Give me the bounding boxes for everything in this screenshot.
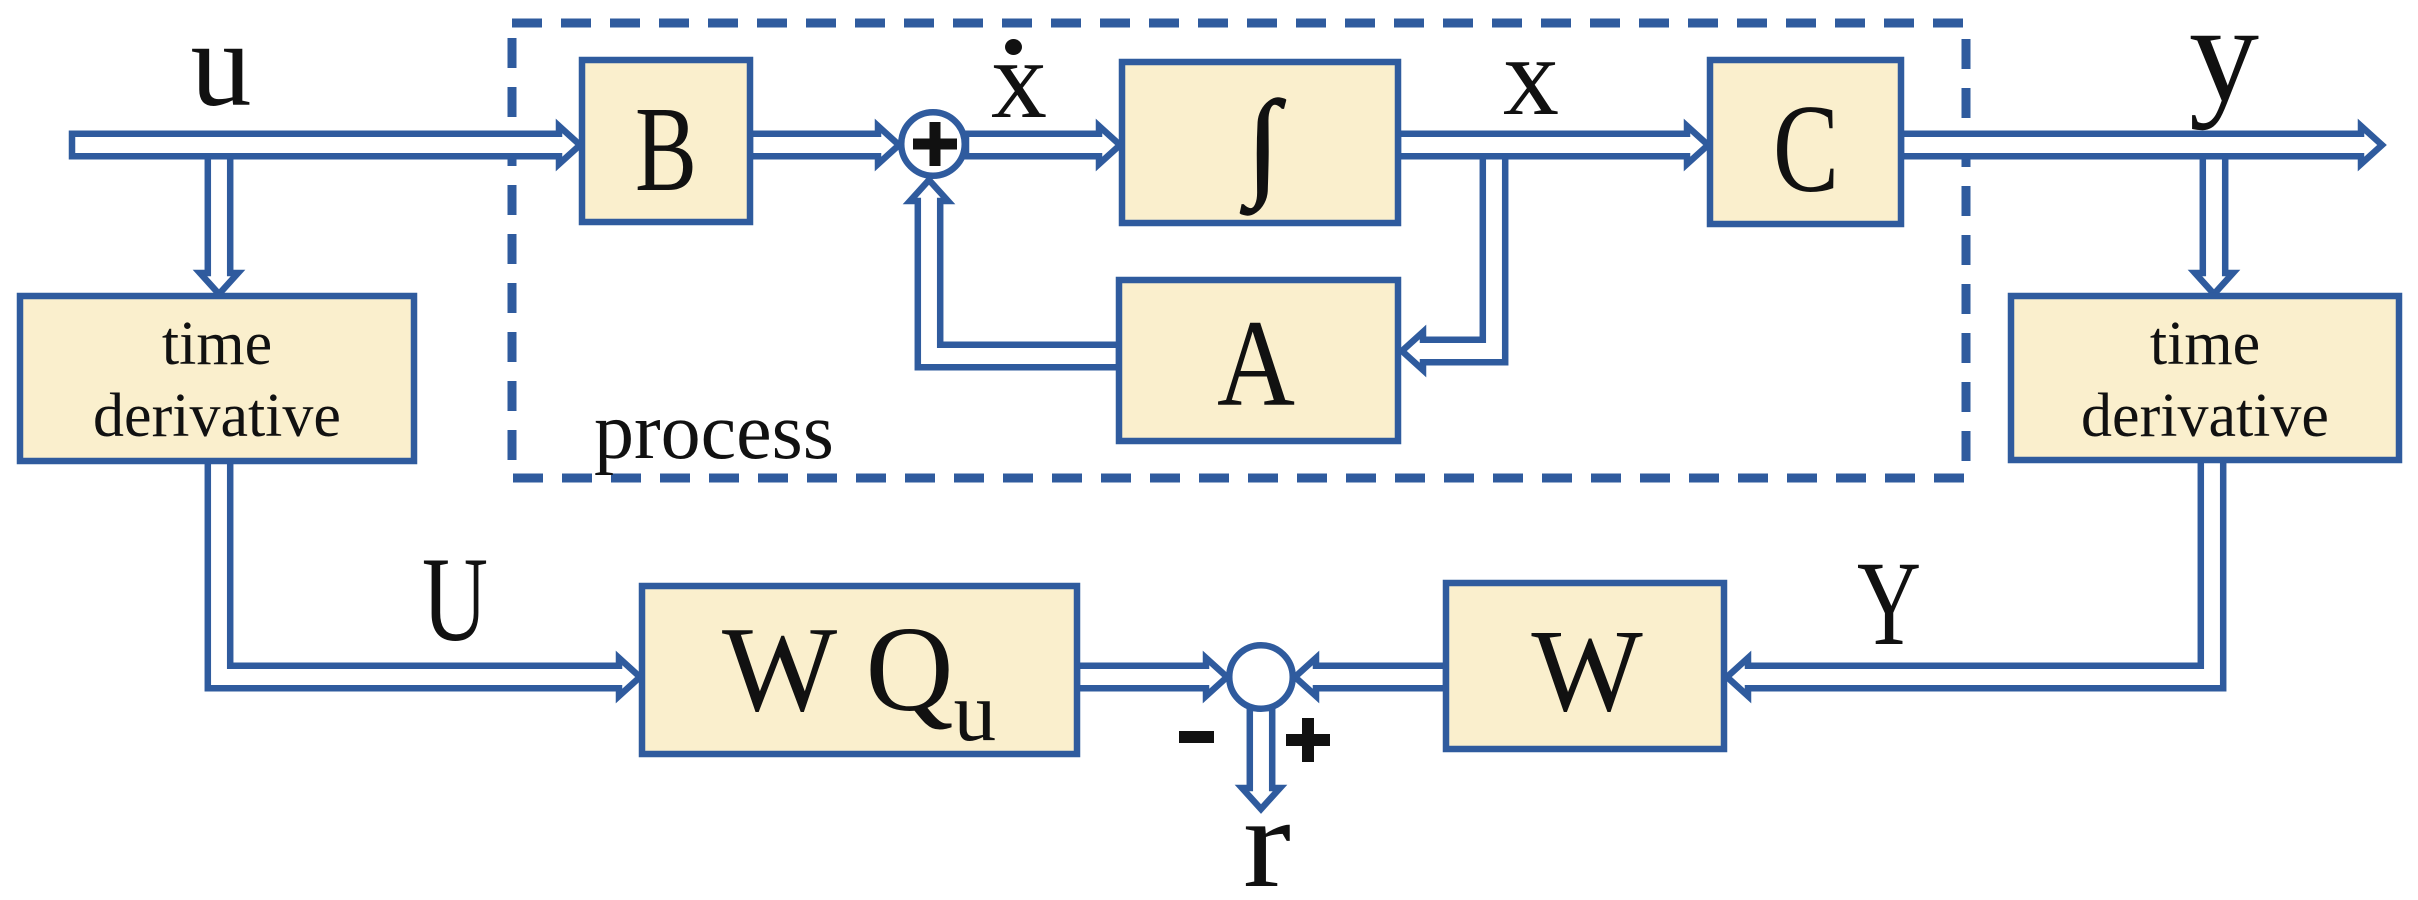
svg-text:r: r bbox=[1243, 771, 1291, 900]
wire W Qu to bottom junction bbox=[1077, 658, 1227, 696]
block A bbox=[1119, 280, 1398, 441]
block time derivative left bbox=[20, 296, 414, 461]
label minus bbox=[1179, 731, 1214, 743]
block C bbox=[1710, 60, 1901, 224]
wire Y: right time derivative down to W bbox=[1727, 459, 2223, 696]
svg-text:derivative: derivative bbox=[2081, 382, 2329, 450]
svg-text:Y: Y bbox=[1857, 537, 1921, 671]
label Y bbox=[1857, 537, 1921, 671]
svg-text:y: y bbox=[2189, 0, 2259, 131]
wire x branch down into A bbox=[1402, 145, 1505, 370]
summing junction top (+) bbox=[901, 112, 965, 176]
label r bbox=[1243, 771, 1291, 900]
svg-text:x: x bbox=[991, 18, 1047, 142]
block W Qu bbox=[642, 586, 1077, 759]
wire r output down bbox=[1242, 708, 1280, 809]
summing junction bottom bbox=[1229, 645, 1293, 709]
svg-text:process: process bbox=[594, 388, 834, 476]
wire xdot: summing junction to integrator bbox=[966, 126, 1120, 164]
svg-text:derivative: derivative bbox=[93, 382, 341, 450]
svg-text:U: U bbox=[422, 533, 488, 667]
wire y output bbox=[1901, 126, 2382, 164]
block integrator bbox=[1122, 62, 1398, 223]
svg-text:W: W bbox=[1531, 605, 1643, 736]
wire u branch down to left time derivative bbox=[200, 145, 238, 294]
label u bbox=[191, 0, 252, 132]
block B bbox=[582, 60, 750, 222]
svg-text:time: time bbox=[162, 310, 272, 378]
label y bbox=[2189, 0, 2259, 131]
label process bbox=[594, 388, 834, 476]
wire U: left time derivative down to W Qu bbox=[208, 459, 640, 696]
block W bbox=[1446, 583, 1724, 749]
svg-text:time: time bbox=[2150, 310, 2260, 378]
label U bbox=[422, 533, 488, 667]
svg-text:x: x bbox=[1503, 15, 1559, 139]
svg-text:∫: ∫ bbox=[1240, 77, 1286, 215]
wire y branch down to right time derivative bbox=[2195, 145, 2233, 294]
label xdot bbox=[991, 18, 1047, 142]
wire B to summing junction bbox=[750, 126, 899, 164]
wire A output to summing junction bbox=[910, 180, 1119, 367]
label plus bbox=[1286, 718, 1330, 762]
block time derivative right bbox=[2011, 296, 2399, 460]
svg-text:B: B bbox=[635, 82, 697, 217]
dashed box: process boundary bbox=[512, 23, 1966, 478]
label x bbox=[1503, 15, 1559, 139]
svg-text:A: A bbox=[1217, 295, 1295, 432]
svg-text:u: u bbox=[191, 0, 252, 132]
wire W to bottom junction bbox=[1295, 658, 1446, 696]
wire u into B bbox=[72, 126, 580, 164]
svg-text:C: C bbox=[1773, 80, 1839, 219]
wire x: integrator to C bbox=[1398, 126, 1708, 164]
